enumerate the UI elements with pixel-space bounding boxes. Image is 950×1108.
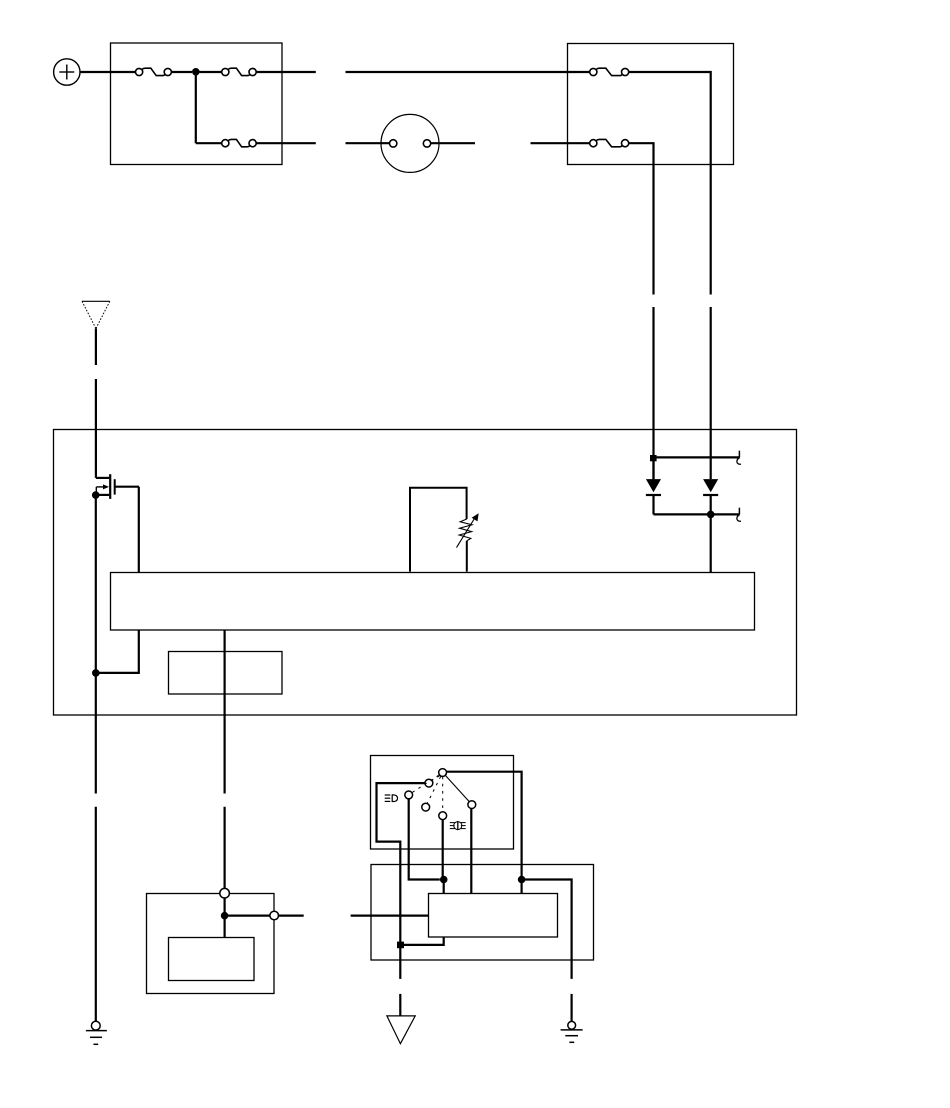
wire fuse5 right and down xyxy=(629,143,654,294)
junction node xyxy=(192,68,200,76)
relay top terminal xyxy=(220,888,230,898)
wire fuse4 right and down xyxy=(629,72,711,295)
radio unit box xyxy=(54,430,797,716)
junction square on ground path xyxy=(397,942,404,949)
wire relay to connector gap xyxy=(279,914,304,916)
relay junction dot xyxy=(221,912,229,920)
connector tick lower xyxy=(737,508,741,522)
wire left branch after connector gap down to junction xyxy=(652,307,654,479)
junction dot on ground wire xyxy=(92,669,100,677)
under-hood fuse/relay box xyxy=(111,43,283,165)
transistor Q1 xyxy=(96,474,139,499)
fog light unit box xyxy=(371,865,594,961)
oscillator box xyxy=(169,652,283,695)
controller second output wire xyxy=(224,630,226,794)
fog light unit inner box xyxy=(429,894,558,938)
variable resistor xyxy=(457,513,479,547)
wire junction to fuse 2 xyxy=(200,71,222,73)
switch contact 2 xyxy=(425,779,433,787)
antenna wire after connector gap xyxy=(95,379,97,478)
switch contact 6 xyxy=(468,801,476,809)
switch selected position line xyxy=(446,776,469,802)
relay right terminal xyxy=(270,911,279,920)
inner box bottom pin wire xyxy=(404,937,444,945)
diode D1 xyxy=(646,461,661,514)
wire contact6 down xyxy=(470,809,472,894)
switch ground wire lower xyxy=(399,948,401,979)
wire junction into fog unit xyxy=(443,880,445,894)
diode D2 xyxy=(703,479,718,514)
switch common wire right and down xyxy=(447,772,522,880)
vertical wire junction down xyxy=(195,72,197,143)
source wire down xyxy=(95,495,97,673)
wire after connector gap to second fuse box xyxy=(346,71,590,73)
position light icon xyxy=(450,822,466,830)
wire after gap to antenna lead connector xyxy=(346,142,390,144)
wire after gap into fuse box 2 xyxy=(531,142,590,144)
fuse 3 xyxy=(222,139,257,146)
wire fuse1 to junction xyxy=(171,71,192,73)
switch ground wire after gap xyxy=(399,994,401,1016)
relay coil box xyxy=(169,938,255,981)
wire battery to fuse box xyxy=(80,71,135,73)
connector tick upper xyxy=(737,451,741,465)
ground G2 triangle xyxy=(387,1016,415,1044)
noise filter line upper xyxy=(654,456,740,458)
ground G3 xyxy=(561,1021,583,1042)
junction square on left branch xyxy=(650,455,657,461)
wire to fuse 3 xyxy=(196,142,222,144)
switch contact 4 xyxy=(422,803,430,811)
antenna lead connector circle xyxy=(381,114,439,172)
wire connector to gap xyxy=(431,142,475,144)
fuse 2 xyxy=(222,68,257,75)
junction dot lower xyxy=(707,511,715,519)
switch position dashes xyxy=(412,775,443,811)
relay coil feed wire xyxy=(224,898,226,938)
wire after gap to relay xyxy=(224,807,226,889)
switch internal thick path xyxy=(377,783,425,945)
fuse 4 xyxy=(590,68,629,75)
wire junction down into fog unit xyxy=(520,880,522,894)
wire D2 to controller bar xyxy=(710,514,712,572)
headlight icon xyxy=(385,795,398,802)
junction dot right xyxy=(518,876,526,884)
switch contact 3 xyxy=(405,791,413,799)
ground wire upper segment xyxy=(95,673,97,794)
switch common contact xyxy=(439,769,447,777)
ground wire lower segment xyxy=(95,807,97,1022)
battery positive terminal xyxy=(54,59,80,85)
right ground wire after gap xyxy=(570,994,572,1022)
ground G1 xyxy=(86,1021,107,1044)
fuse 1 xyxy=(136,68,172,75)
lighting switch box xyxy=(371,756,514,850)
switch contact 5 xyxy=(439,812,447,820)
wire fuse2 out of box xyxy=(256,71,316,73)
junction dot under switch xyxy=(440,876,448,884)
tuning box lower right edge xyxy=(466,541,468,572)
relay wire to right terminal xyxy=(225,914,270,916)
wire fuse3 out of box xyxy=(256,142,316,144)
wire contact5 down xyxy=(442,820,444,879)
controller left output wire xyxy=(96,630,139,673)
drain wire down to controller xyxy=(138,487,140,572)
fuse box 2 xyxy=(568,44,734,165)
relay box xyxy=(147,894,275,994)
fuse 5 xyxy=(590,139,629,146)
antenna xyxy=(82,301,110,328)
wire after gap to fog unit xyxy=(351,914,429,916)
tuning box xyxy=(410,488,467,572)
antenna lead wire xyxy=(95,329,97,366)
controller bar xyxy=(111,573,755,631)
wire contact3 down xyxy=(409,799,440,880)
wire right branch after connector gap down to diode D2 xyxy=(710,307,712,479)
wire junction right and down xyxy=(522,880,572,979)
noise filter line lower xyxy=(654,513,740,515)
transistor source junction xyxy=(92,491,100,499)
